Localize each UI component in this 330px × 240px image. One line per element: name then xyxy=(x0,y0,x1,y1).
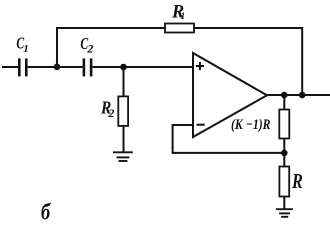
label C2 xyxy=(80,34,93,55)
wire top left to R1 xyxy=(56,27,165,29)
resistor R1 xyxy=(165,24,194,33)
svg-text:2: 2 xyxy=(86,42,93,56)
wire output node to (K-1)R xyxy=(283,95,285,110)
op-amp U1 xyxy=(193,53,267,137)
wire input lead xyxy=(2,66,18,68)
resistor R xyxy=(279,167,289,197)
svg-text:1: 1 xyxy=(181,11,186,21)
resistor R2 xyxy=(118,96,128,126)
wire R to ground xyxy=(283,197,285,210)
node B xyxy=(120,64,127,71)
svg-text:R: R xyxy=(291,169,303,193)
node A xyxy=(54,64,61,71)
svg-text:б: б xyxy=(41,200,51,225)
wire C1 to C2 xyxy=(28,66,83,68)
wire right feedback drop xyxy=(301,27,303,95)
label R1 xyxy=(171,1,185,22)
wire node to R xyxy=(283,153,285,167)
svg-text:2: 2 xyxy=(107,106,114,120)
wire feedback riser from node A xyxy=(56,28,58,67)
label C1 xyxy=(16,34,28,55)
wire inverting input loop xyxy=(173,125,284,153)
wire R2 to ground xyxy=(123,126,125,152)
node feedback junction xyxy=(281,150,288,157)
svg-text:1: 1 xyxy=(23,43,29,55)
capacitor C2 xyxy=(84,58,91,76)
wire output xyxy=(267,94,330,96)
wire (K-1)R to node xyxy=(283,139,285,154)
wire C2 to op-amp input xyxy=(92,66,193,68)
label R2 xyxy=(100,97,114,120)
wire R1 to right corner xyxy=(194,27,302,29)
node output 1 xyxy=(281,92,288,99)
svg-text:(K −1)R: (K −1)R xyxy=(231,117,271,133)
resistor (K-1)R xyxy=(279,110,289,139)
node output 2 xyxy=(299,92,306,99)
wire node B to R2 xyxy=(123,67,125,96)
ground below R2 xyxy=(113,152,133,161)
ground below R xyxy=(276,209,293,217)
capacitor C1 xyxy=(19,58,26,76)
